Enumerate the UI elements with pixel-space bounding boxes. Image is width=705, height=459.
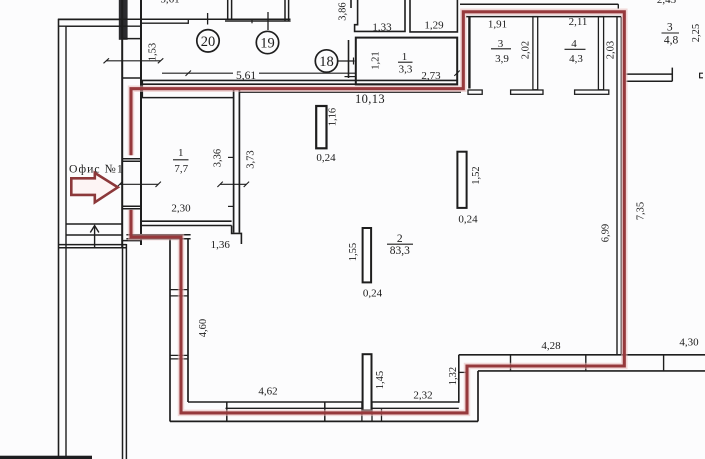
corridor wall tick pair 1 <box>170 289 188 291</box>
tick on wall left of room 1/3,3 <box>345 76 357 78</box>
upper box 1,33 outline <box>355 0 405 31</box>
bay window outer right vertical <box>288 0 290 21</box>
svg-text:83,3: 83,3 <box>390 245 410 257</box>
svg-text:4,62: 4,62 <box>258 386 277 398</box>
dimension line 5,61 right part <box>259 72 356 74</box>
room 1 right wall outer <box>233 90 235 233</box>
rooms 3/4 top wall inner black <box>466 16 621 18</box>
room 18 circle <box>315 50 337 72</box>
svg-text:3: 3 <box>498 38 504 50</box>
svg-text:0,24: 0,24 <box>458 214 478 226</box>
wire: outer left building wall <box>59 20 123 459</box>
partition right foot <box>575 90 609 94</box>
svg-text:2,30: 2,30 <box>171 203 191 215</box>
room 18 leader line <box>338 60 355 62</box>
svg-text:2,45: 2,45 <box>657 0 677 6</box>
wall column division ticks <box>122 39 141 241</box>
svg-text:1,29: 1,29 <box>424 20 444 32</box>
bay window tick <box>251 19 253 23</box>
room 3 left wall foot <box>468 90 482 94</box>
svg-text:3: 3 <box>667 22 673 34</box>
room 2 top inner line <box>240 91 461 93</box>
bottom wall inner line <box>188 401 459 403</box>
corridor left wall inner <box>187 239 189 402</box>
rooms 3/4 top wall outer black <box>460 3 618 5</box>
room 1 right wall tick b <box>228 205 234 207</box>
column C <box>363 228 372 282</box>
bay window outer left vertical <box>227 0 229 19</box>
column D <box>363 354 372 410</box>
svg-text:7,7: 7,7 <box>174 163 188 175</box>
stairs bottom wall lower <box>59 247 127 249</box>
right band tick 1 <box>510 355 512 371</box>
stairs divider / arrow stem <box>94 227 96 248</box>
wall stub end cap <box>671 68 673 82</box>
room 1 right wall tick a <box>228 156 234 158</box>
red office outline <box>131 12 624 413</box>
svg-text:2: 2 <box>397 233 403 245</box>
right bottom wall band upper line <box>459 354 705 356</box>
svg-text:3,9: 3,9 <box>495 53 509 65</box>
partition 3|4 foot <box>511 90 543 94</box>
svg-text:2,32: 2,32 <box>413 390 432 402</box>
office arrow <box>71 173 118 202</box>
svg-text:5,61: 5,61 <box>236 70 256 82</box>
svg-text:6,99: 6,99 <box>601 224 612 242</box>
bay window inner right vertical <box>284 0 286 21</box>
svg-text:1,52: 1,52 <box>471 166 482 184</box>
svg-text:4,30: 4,30 <box>679 336 699 348</box>
rooms 3/4 top wall corner tick <box>617 4 619 8</box>
room 1 right wall inner <box>238 90 240 233</box>
room 3 left wall <box>468 17 470 89</box>
bottom wall outer line <box>170 420 478 422</box>
svg-text:4,28: 4,28 <box>541 340 561 352</box>
svg-text:2,02: 2,02 <box>521 41 532 59</box>
room 1 bottom step <box>232 226 242 245</box>
room 1 bottom wall lower line <box>141 225 232 227</box>
wall stub right of red wall upper <box>626 73 672 75</box>
svg-text:19: 19 <box>260 36 275 52</box>
scan edge strip bottom-left <box>0 456 92 459</box>
dimension line 1,53 <box>106 60 161 62</box>
column B <box>457 152 466 208</box>
tiny bracket right edge <box>700 73 703 78</box>
right wall black inner <box>620 17 622 355</box>
bottom wall tick 2 <box>324 402 326 421</box>
svg-text:3,86: 3,86 <box>337 2 348 20</box>
svg-text:1: 1 <box>178 147 184 159</box>
svg-text:4,8: 4,8 <box>664 35 679 47</box>
top wall lower line left part <box>58 25 142 27</box>
svg-text:2,73: 2,73 <box>421 70 441 82</box>
wall under red step lower line <box>126 238 190 240</box>
bottom wall second line <box>226 407 459 409</box>
svg-text:0,24: 0,24 <box>363 288 383 300</box>
5,61 wall upper line <box>142 79 458 81</box>
svg-text:2,03: 2,03 <box>606 41 617 59</box>
svg-text:18: 18 <box>319 54 334 70</box>
corridor wall tick pair 2 <box>170 354 188 356</box>
bottom wall column D frame left <box>361 402 363 421</box>
partition wall right of room 4 <box>598 17 603 90</box>
stairs tread 2 <box>66 234 122 236</box>
svg-text:1,33: 1,33 <box>372 22 392 34</box>
right band tick 3 <box>663 355 665 371</box>
svg-text:2,11: 2,11 <box>569 16 588 28</box>
svg-text:1,32: 1,32 <box>448 367 459 385</box>
svg-text:1,16: 1,16 <box>328 108 339 126</box>
svg-text:3,36: 3,36 <box>213 149 224 167</box>
wall stub right of red wall lower <box>626 80 672 82</box>
wall column dark segment <box>119 0 128 40</box>
bottom wall column D frame right <box>371 402 373 421</box>
room 18 leader tick <box>353 58 355 65</box>
svg-text:1,45: 1,45 <box>375 371 386 389</box>
room 19 circle <box>256 31 278 53</box>
bottom wall tick 3 <box>381 408 383 421</box>
red glow outline <box>131 12 624 413</box>
svg-text:1: 1 <box>402 51 408 63</box>
right wall black outer <box>616 17 618 355</box>
svg-text:20: 20 <box>201 34 216 50</box>
right bottom wall band lower line <box>478 370 705 372</box>
wire: inner left building wall <box>66 26 122 459</box>
svg-text:5,61: 5,61 <box>160 0 179 6</box>
upper box 1,29 outline <box>410 0 457 32</box>
svg-text:3,73: 3,73 <box>246 150 257 168</box>
svg-text:0,24: 0,24 <box>316 152 336 164</box>
wall left of room 1/3,3 <box>348 40 350 78</box>
svg-text:2,25: 2,25 <box>691 24 702 42</box>
wall under red step upper line <box>126 234 190 236</box>
svg-text:4: 4 <box>571 38 577 50</box>
dimension line room1 right <box>220 183 246 185</box>
below-stairs wall vertical inner <box>125 244 127 459</box>
wall column left vertical <box>121 0 123 248</box>
bottom-right step connector <box>459 371 467 373</box>
svg-text:7,35: 7,35 <box>636 202 647 220</box>
bottom wall tick 1 <box>226 402 228 421</box>
bottom-right step inner vertical <box>458 355 460 403</box>
room 20 circle <box>197 30 219 52</box>
bottom-right step outer vertical <box>477 371 479 422</box>
right band tick 2 <box>585 355 587 371</box>
bay window bottom line <box>225 20 291 22</box>
svg-text:10,13: 10,13 <box>355 92 385 106</box>
room 1 top inner line <box>141 97 234 99</box>
stairs tread 1 <box>66 223 122 225</box>
room 1/3,3 box <box>356 38 457 85</box>
stairs arrow head <box>90 226 99 233</box>
bay window inner left vertical <box>231 0 233 19</box>
svg-text:1,53: 1,53 <box>147 43 158 61</box>
room 1 bottom wall upper line <box>141 220 232 222</box>
svg-text:1,55: 1,55 <box>348 243 359 261</box>
column A <box>316 106 326 148</box>
top wall step connector <box>187 19 189 24</box>
partition wall rooms 3|4 <box>533 17 538 90</box>
partial wall above room 18 area <box>350 0 352 8</box>
corridor left wall outer <box>169 239 171 422</box>
svg-text:1,36: 1,36 <box>211 239 231 251</box>
top wall lower line right part <box>142 22 189 24</box>
5,61 wall lower line <box>142 83 458 85</box>
dimension line office door left <box>120 183 159 185</box>
leader tick room 20 <box>207 13 209 25</box>
5,61 wall left cap <box>141 80 143 97</box>
svg-text:4,60: 4,60 <box>198 319 209 337</box>
top wall of rooms 20/19 upper line <box>58 18 291 20</box>
stairs bottom wall upper <box>59 244 127 246</box>
svg-text:1,91: 1,91 <box>488 19 507 31</box>
dimension line 5,61 left part <box>162 72 233 74</box>
svg-text:4,3: 4,3 <box>569 53 583 65</box>
below-stairs wall vertical outer <box>122 244 124 459</box>
leader tick room 19 <box>267 12 269 30</box>
svg-text:3,3: 3,3 <box>399 64 413 76</box>
wall column right vertical <box>140 0 142 245</box>
svg-text:1,21: 1,21 <box>370 51 381 69</box>
